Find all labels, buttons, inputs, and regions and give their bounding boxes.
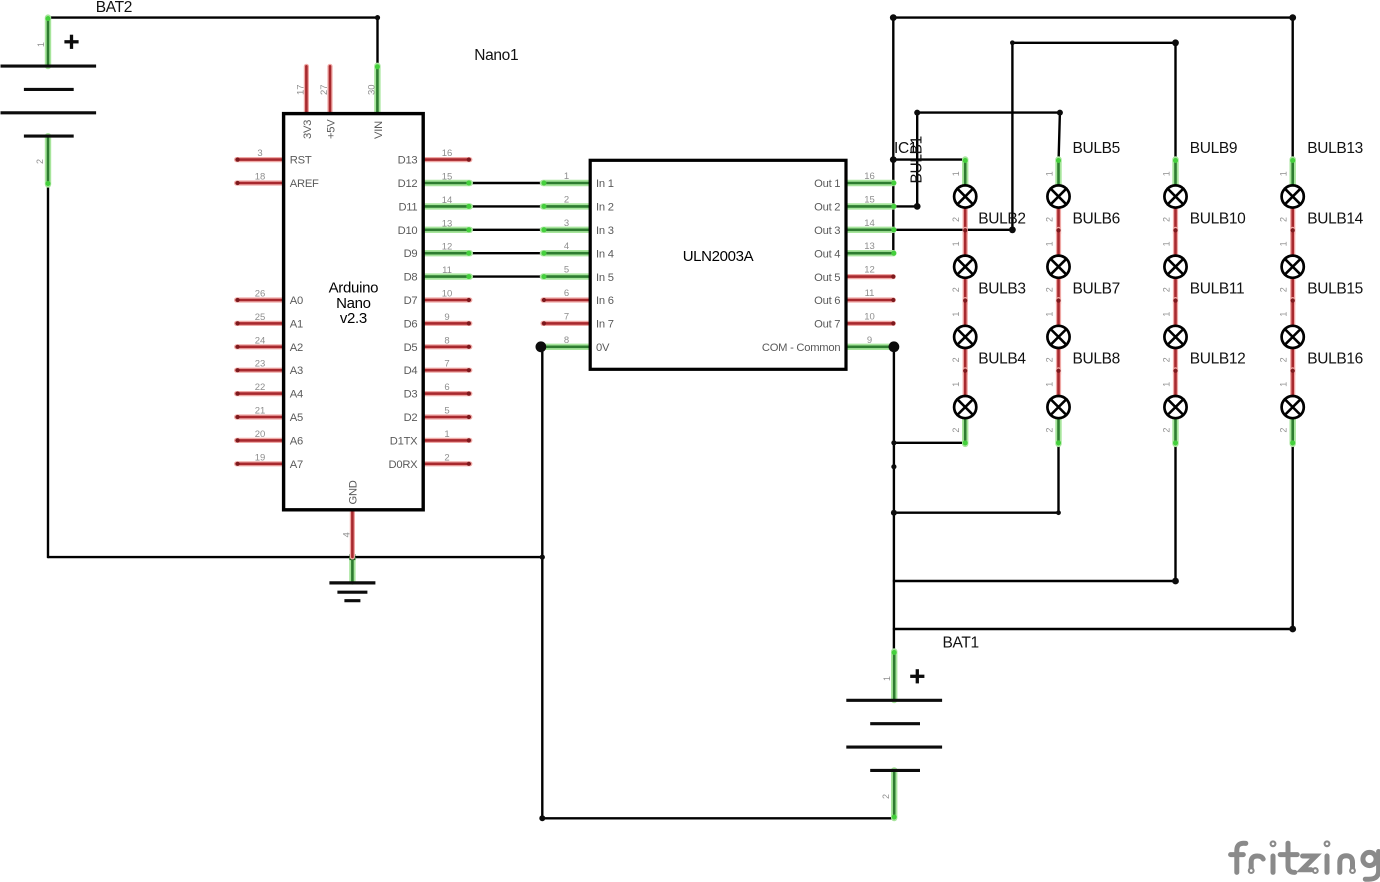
lamp BULB3	[951, 299, 976, 376]
svg-text:18: 18	[255, 172, 266, 183]
wire BULB12 bottom drop	[1174, 444, 1176, 581]
svg-text:In 4: In 4	[596, 248, 614, 260]
battery BAT2	[1, 16, 97, 186]
svg-text:2: 2	[1161, 217, 1171, 222]
svg-text:Out 5: Out 5	[814, 272, 840, 284]
svg-text:BULB4: BULB4	[978, 351, 1026, 368]
wire D9 to In 4	[470, 252, 541, 254]
svg-text:In 7: In 7	[596, 319, 614, 331]
svg-text:D12: D12	[398, 178, 418, 190]
svg-text:BULB5: BULB5	[1073, 140, 1120, 157]
svg-text:16: 16	[442, 148, 453, 159]
wire 0V bus to BAT1 minus	[542, 817, 894, 819]
junction BULB12 drop corner	[1172, 578, 1179, 585]
svg-text:COM - Common: COM - Common	[762, 342, 840, 354]
svg-text:1: 1	[1161, 312, 1171, 317]
wire Out3 to BULB9 net	[1012, 42, 1175, 44]
svg-text:20: 20	[255, 429, 266, 440]
svg-text:2: 2	[35, 159, 45, 164]
svg-text:Out 2: Out 2	[814, 202, 840, 214]
lamp BULB5	[1044, 158, 1069, 235]
junction bus corner bottom	[539, 815, 545, 821]
junction BULB8 drop corner	[1056, 510, 1061, 515]
junction BULB16 drop corner	[1289, 626, 1296, 633]
svg-text:In 6: In 6	[596, 295, 614, 307]
svg-text:2: 2	[1044, 287, 1054, 292]
svg-text:VIN: VIN	[373, 121, 385, 139]
svg-text:BULB1: BULB1	[909, 136, 926, 183]
svg-text:ULN2003A: ULN2003A	[683, 248, 754, 265]
IC IC1 body	[590, 160, 846, 369]
svg-text:A3: A3	[290, 365, 303, 377]
svg-text:BULB6: BULB6	[1073, 210, 1120, 227]
svg-text:D7: D7	[404, 295, 418, 307]
svg-text:+5V: +5V	[325, 119, 337, 139]
wire BULB5 top drop	[1059, 113, 1060, 160]
lamp BULB8	[1044, 369, 1069, 446]
lamp BULB16	[1279, 369, 1304, 446]
wire to BULB1 top	[893, 158, 965, 160]
svg-text:BULB11: BULB11	[1190, 281, 1244, 298]
battery BAT1	[846, 650, 942, 820]
svg-text:BULB3: BULB3	[978, 281, 1025, 298]
svg-text:AREF: AREF	[290, 178, 319, 190]
svg-text:1: 1	[1279, 382, 1289, 387]
svg-text:A5: A5	[290, 412, 303, 424]
svg-text:4: 4	[342, 532, 353, 537]
wire bus to BULB16 bottom	[894, 628, 1293, 630]
lamp BULB12	[1161, 369, 1186, 446]
svg-text:12: 12	[864, 265, 875, 276]
svg-text:RST: RST	[290, 155, 312, 167]
junction GND bus corner	[540, 555, 545, 560]
svg-text:A7: A7	[290, 459, 303, 471]
svg-text:BULB8: BULB8	[1073, 351, 1120, 368]
svg-text:9: 9	[444, 312, 449, 323]
svg-text:1: 1	[1161, 241, 1171, 246]
svg-text:8: 8	[444, 335, 449, 346]
svg-text:19: 19	[255, 452, 266, 463]
junction Out3 net top corner	[1010, 40, 1015, 45]
svg-text:12: 12	[442, 242, 453, 253]
svg-text:BULB10: BULB10	[1190, 210, 1246, 227]
junction COM node	[889, 341, 900, 352]
svg-text:7: 7	[444, 359, 449, 370]
svg-text:13: 13	[864, 241, 875, 252]
svg-text:5: 5	[564, 265, 569, 276]
lamp BULB15	[1279, 299, 1304, 376]
svg-text:2: 2	[881, 794, 891, 799]
wire BAT2 plus to VIN corner	[48, 16, 378, 18]
svg-text:2: 2	[564, 194, 569, 205]
lamp BULB7	[1044, 299, 1069, 376]
wire top net Out1 to BULB13	[893, 16, 1292, 18]
svg-text:D13: D13	[398, 155, 418, 167]
svg-text:3: 3	[564, 218, 569, 229]
svg-text:Out 1: Out 1	[814, 178, 840, 190]
svg-text:In 5: In 5	[596, 272, 614, 284]
svg-text:1: 1	[951, 382, 961, 387]
svg-text:D2: D2	[404, 412, 418, 424]
svg-text:1: 1	[1044, 382, 1054, 387]
svg-text:3V3: 3V3	[302, 120, 314, 139]
svg-text:2: 2	[1279, 217, 1289, 222]
IC IC1 ULN2003A pins	[542, 181, 897, 350]
svg-text:22: 22	[255, 382, 266, 393]
wire 0V vertical bus	[541, 347, 543, 819]
svg-text:Nano1: Nano1	[474, 47, 518, 64]
svg-text:BULB7: BULB7	[1073, 281, 1120, 298]
svg-text:1: 1	[882, 676, 892, 681]
svg-text:4: 4	[564, 241, 569, 252]
svg-text:25: 25	[255, 312, 266, 323]
svg-text:8: 8	[564, 335, 569, 346]
junction bus node 1	[891, 440, 896, 445]
junction BULB1 branch	[890, 156, 897, 163]
wire COM to BAT1 plus	[893, 347, 895, 652]
junction bus node 3	[891, 510, 897, 516]
svg-text:Out 3: Out 3	[814, 225, 840, 237]
svg-text:15: 15	[442, 172, 453, 183]
svg-text:D6: D6	[404, 318, 418, 330]
svg-text:1: 1	[1279, 241, 1289, 246]
svg-text:2: 2	[1044, 357, 1054, 362]
fritzing logo	[1231, 841, 1379, 879]
svg-text:A4: A4	[290, 389, 303, 401]
junction Out2 net left	[914, 110, 920, 116]
lamp BULB14	[1279, 228, 1304, 305]
svg-text:D1TX: D1TX	[390, 435, 418, 447]
wire D11 to In 2	[470, 205, 541, 207]
svg-text:1: 1	[1161, 382, 1171, 387]
svg-text:D9: D9	[404, 248, 418, 260]
wire Out3 riser	[1011, 43, 1013, 230]
wire bus to BULB12 bottom	[894, 580, 1176, 582]
lamp BULB6	[1044, 228, 1069, 305]
svg-text:13: 13	[442, 218, 453, 229]
svg-text:1: 1	[951, 171, 961, 176]
svg-text:D5: D5	[404, 342, 418, 354]
junction Out3 net corner	[1172, 39, 1179, 46]
svg-text:2: 2	[444, 452, 449, 463]
svg-text:In 2: In 2	[596, 202, 614, 214]
junction 0V node	[536, 341, 547, 352]
svg-text:9: 9	[867, 335, 872, 346]
junction top net left	[890, 14, 897, 21]
svg-text:10: 10	[864, 311, 875, 322]
svg-text:A1: A1	[290, 318, 303, 330]
svg-text:BULB2: BULB2	[978, 210, 1025, 227]
svg-text:1: 1	[1279, 171, 1289, 176]
svg-text:10: 10	[442, 289, 453, 300]
svg-text:D4: D4	[404, 365, 418, 377]
svg-text:1: 1	[951, 241, 961, 246]
svg-text:11: 11	[865, 288, 875, 299]
wire Out1-Out4 vertical	[892, 18, 894, 254]
svg-text:2: 2	[951, 287, 961, 292]
IC Nano1 pin labels	[255, 84, 453, 537]
svg-text:2: 2	[1044, 217, 1054, 222]
svg-text:D11: D11	[398, 201, 417, 213]
svg-text:5: 5	[444, 406, 449, 417]
svg-text:BULB13: BULB13	[1307, 140, 1363, 157]
svg-text:27: 27	[319, 84, 330, 95]
svg-text:A2: A2	[290, 342, 303, 354]
svg-text:2: 2	[1279, 428, 1289, 433]
junction Out2 net right	[1057, 110, 1063, 116]
wire BULB8 bottom drop	[1057, 444, 1059, 513]
svg-text:BULB9: BULB9	[1190, 140, 1237, 157]
wire D8 to In 5	[470, 275, 541, 277]
svg-text:3: 3	[257, 148, 262, 159]
IC Nano1 Arduino Nano pins	[236, 64, 472, 557]
svg-text:Out 4: Out 4	[814, 248, 840, 260]
svg-text:2: 2	[1044, 428, 1054, 433]
svg-text:D3: D3	[404, 389, 418, 401]
svg-text:2: 2	[1279, 287, 1289, 292]
junction bus node 2	[891, 464, 896, 469]
svg-text:7: 7	[564, 311, 569, 322]
svg-text:BULB12: BULB12	[1190, 351, 1246, 368]
svg-text:D10: D10	[398, 225, 418, 237]
svg-text:0V: 0V	[596, 342, 610, 354]
IC Nano1 internal label	[329, 280, 379, 328]
svg-text:1: 1	[564, 171, 569, 182]
lamp BULB13	[1279, 158, 1304, 235]
svg-text:BULB15: BULB15	[1307, 281, 1363, 298]
svg-text:6: 6	[444, 382, 449, 393]
svg-text:2: 2	[1279, 357, 1289, 362]
lamp BULB1	[951, 158, 976, 235]
wire VIN drop	[376, 18, 378, 66]
svg-text:BAT1: BAT1	[943, 635, 979, 652]
wire BAT2 minus down	[47, 185, 49, 557]
svg-text:A6: A6	[290, 435, 303, 447]
wire Out3 net horizontal	[894, 229, 1013, 231]
wire BULB9 top drop	[1174, 43, 1176, 160]
svg-text:D0RX: D0RX	[389, 459, 419, 471]
svg-text:15: 15	[864, 194, 875, 205]
wire Out2 stub	[894, 205, 918, 207]
svg-text:23: 23	[255, 359, 266, 370]
svg-text:1: 1	[36, 42, 46, 47]
junction BAT2-VIN corner	[375, 15, 380, 20]
ground	[329, 558, 375, 601]
junction GND tap	[349, 554, 355, 560]
wire D12 to In 1	[470, 182, 541, 184]
lamp BULB9	[1161, 158, 1186, 235]
svg-text:A0: A0	[290, 295, 303, 307]
wire D10 to In 3	[470, 229, 541, 231]
svg-text:24: 24	[255, 335, 266, 346]
svg-text:21: 21	[255, 406, 266, 417]
svg-text:1: 1	[1044, 171, 1054, 176]
lamp BULB4	[951, 369, 976, 446]
junction top net right	[1289, 14, 1296, 21]
wire bus to BULB8 bottom	[894, 512, 1059, 514]
svg-text:v2.3: v2.3	[340, 310, 367, 327]
svg-text:1: 1	[1279, 312, 1289, 317]
svg-text:2: 2	[951, 428, 961, 433]
svg-text:2: 2	[1161, 287, 1171, 292]
wire BULB16 bottom drop	[1291, 444, 1293, 629]
svg-text:Out 6: Out 6	[814, 295, 840, 307]
svg-text:30: 30	[367, 84, 378, 95]
wire bus to BULB4 bottom	[894, 442, 965, 444]
svg-text:BULB14: BULB14	[1307, 210, 1363, 227]
svg-text:GND: GND	[348, 480, 360, 504]
wire GND bus bottom left	[48, 556, 542, 558]
svg-text:1: 1	[1044, 241, 1054, 246]
IC Nano1 body	[284, 114, 424, 510]
svg-text:Out 7: Out 7	[814, 319, 840, 331]
svg-text:1: 1	[951, 312, 961, 317]
svg-text:26: 26	[255, 289, 266, 300]
svg-text:BAT2: BAT2	[96, 0, 132, 16]
svg-text:In 3: In 3	[596, 225, 614, 237]
svg-text:11: 11	[442, 265, 452, 276]
svg-text:D8: D8	[404, 272, 418, 284]
lamp BULB10	[1161, 228, 1186, 305]
svg-text:2: 2	[951, 217, 961, 222]
svg-text:16: 16	[864, 171, 875, 182]
svg-text:2: 2	[1161, 357, 1171, 362]
svg-text:1: 1	[1044, 312, 1054, 317]
junction Out3 riser foot	[1009, 226, 1016, 233]
svg-text:2: 2	[951, 357, 961, 362]
junction Out2 riser foot	[914, 203, 921, 210]
svg-text:In 1: In 1	[596, 178, 614, 190]
wire Out2 riser	[916, 113, 918, 207]
svg-text:14: 14	[442, 195, 453, 206]
IC IC1 pin labels	[564, 171, 875, 354]
svg-text:BULB16: BULB16	[1307, 351, 1363, 368]
svg-text:2: 2	[1161, 428, 1171, 433]
lamp BULB11	[1161, 299, 1186, 376]
svg-text:6: 6	[564, 288, 569, 299]
svg-text:17: 17	[296, 84, 307, 95]
wire BULB13 top drop	[1291, 18, 1293, 160]
svg-text:1: 1	[444, 429, 449, 440]
svg-text:14: 14	[864, 218, 875, 229]
lamp BULB2	[951, 228, 976, 305]
wire Out2 to BULB5 net	[917, 111, 1060, 113]
svg-text:1: 1	[1161, 171, 1171, 176]
